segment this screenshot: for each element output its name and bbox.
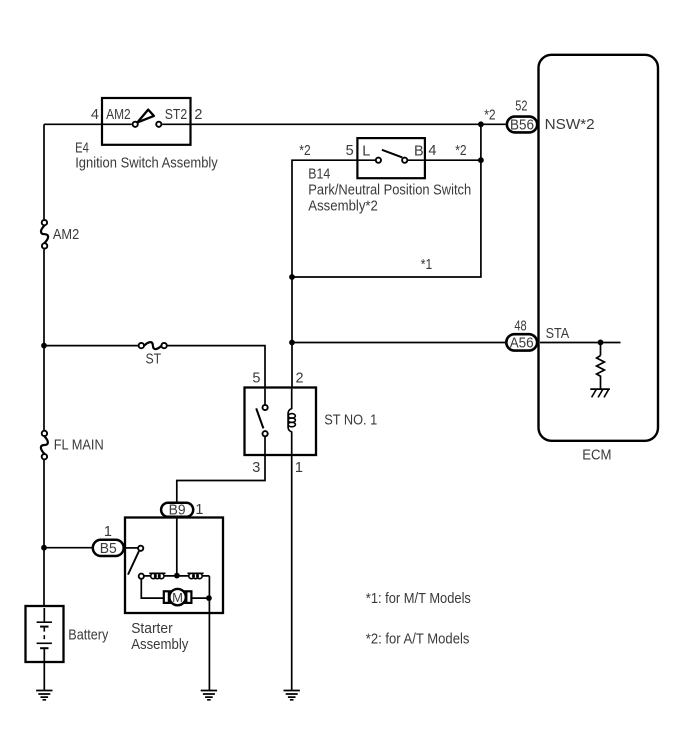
svg-text:5: 5 <box>346 143 354 159</box>
svg-text:A56: A56 <box>510 336 534 352</box>
svg-text:1: 1 <box>195 502 203 518</box>
svg-text:Starter: Starter <box>131 621 173 637</box>
svg-text:*1: *1 <box>421 257 432 273</box>
svg-text:4: 4 <box>428 143 436 159</box>
svg-text:ST NO. 1: ST NO. 1 <box>324 412 377 428</box>
svg-text:B14: B14 <box>308 167 330 183</box>
svg-text:ECM: ECM <box>582 447 611 463</box>
svg-text:AM2: AM2 <box>106 107 131 123</box>
svg-text:*1: for M/T Models: *1: for M/T Models <box>366 591 471 607</box>
svg-text:2: 2 <box>194 107 202 123</box>
svg-text:NSW*2: NSW*2 <box>545 117 595 133</box>
svg-text:Assembly*2: Assembly*2 <box>308 198 378 214</box>
svg-text:Assembly: Assembly <box>131 637 189 653</box>
svg-text:*2: *2 <box>299 143 310 159</box>
svg-text:3: 3 <box>252 460 260 476</box>
svg-text:1: 1 <box>295 460 303 476</box>
svg-text:48: 48 <box>514 319 526 335</box>
svg-text:*2: *2 <box>455 143 466 159</box>
svg-text:ST2: ST2 <box>165 107 188 123</box>
svg-text:52: 52 <box>515 99 527 115</box>
svg-text:1: 1 <box>104 524 112 540</box>
svg-text:B5: B5 <box>100 541 117 557</box>
svg-text:M: M <box>172 590 183 605</box>
svg-text:2: 2 <box>296 371 304 387</box>
svg-text:AM2: AM2 <box>53 227 79 243</box>
svg-text:Park/Neutral Position Switch: Park/Neutral Position Switch <box>308 183 471 199</box>
svg-text:Ignition Switch Assembly: Ignition Switch Assembly <box>75 155 218 171</box>
svg-text:E4: E4 <box>75 140 89 156</box>
svg-text:ST: ST <box>145 352 161 368</box>
svg-text:STA: STA <box>546 326 570 342</box>
svg-text:B: B <box>414 144 424 160</box>
svg-text:Battery: Battery <box>68 628 109 644</box>
svg-text:FL MAIN: FL MAIN <box>54 438 104 454</box>
svg-text:5: 5 <box>252 371 260 387</box>
svg-text:*2: for A/T Models: *2: for A/T Models <box>366 632 470 648</box>
svg-text:4: 4 <box>91 107 99 123</box>
svg-text:B9: B9 <box>169 503 186 519</box>
svg-text:L: L <box>362 144 370 160</box>
svg-text:B56: B56 <box>510 118 534 134</box>
svg-text:*2: *2 <box>484 108 495 124</box>
